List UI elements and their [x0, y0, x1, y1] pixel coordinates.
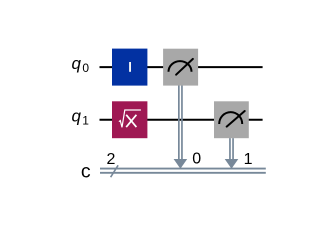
gate sqrt-X on q1 — [112, 101, 147, 138]
qubit label q0 — [71, 54, 89, 75]
classical register size slash — [111, 165, 119, 177]
measure connector lines M1 (double vertical) — [230, 138, 233, 160]
svg-text:c: c — [81, 160, 91, 182]
svg-text:q: q — [71, 106, 81, 125]
qubit wire q0 — [100, 66, 263, 68]
qubit label q1 — [71, 106, 89, 127]
qubit wire q1 — [100, 119, 263, 121]
svg-text:2: 2 — [106, 151, 115, 168]
svg-text:1: 1 — [82, 113, 89, 127]
svg-text:1: 1 — [244, 151, 253, 168]
classical wire c (double line) — [100, 169, 266, 173]
measure gate M1 on q1 — [214, 101, 249, 138]
measure arrow M1 — [225, 159, 239, 169]
measure gate M0 on q0 — [163, 49, 198, 86]
measure connector lines M0 (double vertical) — [179, 86, 182, 161]
svg-text:0: 0 — [82, 61, 89, 75]
measure arrow M0 — [174, 159, 188, 169]
gate I on q0 (identity) — [112, 49, 147, 86]
svg-text:q: q — [71, 54, 81, 73]
svg-text:0: 0 — [192, 151, 201, 168]
